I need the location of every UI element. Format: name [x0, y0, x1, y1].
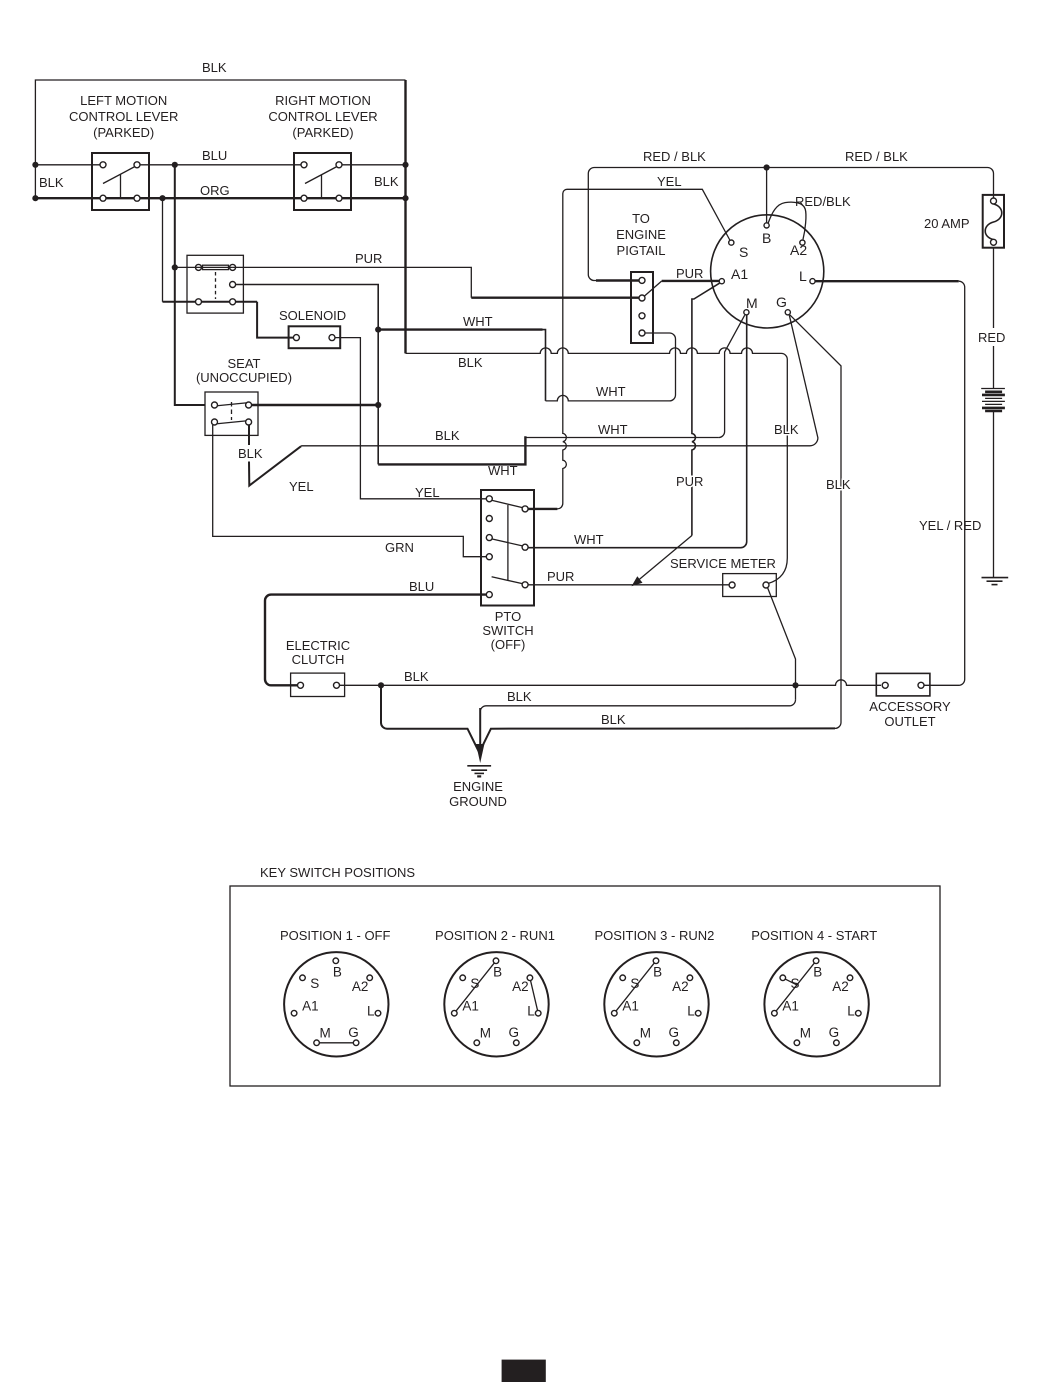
key switch terminals	[719, 223, 815, 315]
svg-text:L: L	[527, 1004, 535, 1019]
svg-text:PTO: PTO	[495, 609, 522, 624]
svg-text:(OFF): (OFF)	[491, 637, 526, 652]
svg-text:WHT: WHT	[574, 532, 604, 547]
wire RED fuse to battery	[993, 248, 995, 388]
wire BLK top loop (top horizontal + left vertical)	[35, 80, 405, 198]
wire relay mid-right to vertical x=378	[236, 285, 379, 465]
svg-text:RIGHT MOTION: RIGHT MOTION	[275, 93, 371, 108]
svg-text:G: G	[348, 1025, 359, 1040]
accessory outlet J2 box	[876, 673, 930, 696]
svg-text:G: G	[669, 1025, 680, 1040]
wire BLK row B y=445.8 seat to G corner	[301, 315, 818, 446]
svg-text:PUR: PUR	[676, 474, 703, 489]
node junction dot WHT tap	[375, 327, 381, 333]
key position 4 circle (A1-B with S tap)	[764, 952, 868, 1056]
svg-text:CONTROL LEVER: CONTROL LEVER	[268, 109, 377, 124]
svg-text:BLK: BLK	[826, 477, 851, 492]
svg-text:RED / BLK: RED / BLK	[643, 149, 706, 164]
wire relay top-left to BLU vertical	[175, 266, 233, 268]
arrowhead to engine ground	[476, 744, 484, 763]
wire WHT y=401 row to pigtail T4 (with hop)	[546, 333, 676, 401]
svg-text:POSITION 2 - RUN1: POSITION 2 - RUN1	[435, 928, 555, 943]
key position 2 circle (A1-B, A2-L)	[444, 952, 548, 1056]
ground symbol engine ground	[467, 766, 491, 777]
svg-text:B: B	[493, 965, 502, 980]
svg-text:SWITCH: SWITCH	[482, 623, 533, 638]
meter M1 service meter box	[723, 574, 777, 597]
svg-text:M: M	[746, 295, 758, 311]
wire BLK y=353 row (with hops)	[406, 348, 788, 558]
wire WHT step down to y=401 row	[543, 330, 546, 401]
wire GRN seat bottom-left to PTO T4	[213, 425, 487, 557]
wire B terminal vertical	[766, 168, 768, 223]
svg-text:A1: A1	[731, 266, 748, 282]
fuse F1 20 AMP	[983, 195, 1004, 248]
node junction dots levers	[32, 162, 408, 202]
svg-text:PUR: PUR	[355, 251, 382, 266]
wire YEL from S terminal to PTO R1	[555, 189, 730, 509]
svg-text:GROUND: GROUND	[449, 794, 507, 809]
svg-text:KEY SWITCH POSITIONS: KEY SWITCH POSITIONS	[260, 865, 415, 880]
svg-text:CLUTCH: CLUTCH	[292, 652, 345, 667]
relay K1 box	[187, 255, 243, 313]
svg-text:(PARKED): (PARKED)	[93, 125, 154, 140]
svg-text:BLU: BLU	[409, 579, 434, 594]
svg-text:B: B	[762, 230, 771, 246]
svg-text:A1: A1	[462, 998, 479, 1013]
svg-text:LEFT MOTION: LEFT MOTION	[80, 93, 167, 108]
wire ORG row y=198 (thick)	[35, 197, 405, 199]
svg-text:S: S	[470, 976, 479, 991]
svg-text:M: M	[800, 1026, 811, 1041]
switch S2 right motion control lever	[294, 153, 351, 210]
svg-text:A2: A2	[832, 979, 849, 994]
key switch SW1 circle	[711, 215, 824, 328]
svg-text:SOLENOID: SOLENOID	[279, 308, 346, 323]
svg-text:ENGINE: ENGINE	[453, 779, 503, 794]
svg-text:POSITION 1 - OFF: POSITION 1 - OFF	[280, 928, 391, 943]
wire L to YEL/RED accessory outlet	[816, 280, 959, 282]
svg-text:BLK: BLK	[202, 60, 227, 75]
svg-text:M: M	[640, 1026, 651, 1041]
svg-text:SEAT: SEAT	[228, 356, 261, 371]
svg-text:BLK: BLK	[601, 712, 626, 727]
switch S3 seat box	[205, 392, 258, 435]
connector J1 to engine pigtail box	[631, 272, 653, 343]
svg-text:OUTLET: OUTLET	[884, 714, 935, 729]
wire battery to chassis ground	[993, 411, 995, 578]
wire BLK seat bottom-right checkmark to line B	[248, 425, 250, 445]
label ACCESSORY OUTLET	[869, 699, 951, 729]
node junction dot clutch tap	[378, 682, 384, 688]
svg-text:L: L	[687, 1004, 695, 1019]
label LEFT MOTION CONTROL LEVER (PARKED)	[69, 93, 178, 140]
label TO ENGINE PIGTAIL	[616, 211, 666, 258]
svg-text:ELECTRIC: ELECTRIC	[286, 638, 350, 653]
svg-text:(UNOCCUPIED): (UNOCCUPIED)	[196, 370, 292, 385]
wire PUR A1 diagonal and vertical to arrow	[692, 283, 720, 535]
svg-text:WHT: WHT	[463, 314, 493, 329]
svg-text:S: S	[791, 976, 800, 991]
svg-text:BLU: BLU	[202, 148, 227, 163]
solenoid L1 box	[289, 326, 341, 348]
node junction dot seat line	[375, 402, 381, 408]
wire BLU vertical x=175 to seat	[175, 165, 205, 405]
wire BLK service-meter ground branch	[480, 700, 795, 744]
svg-text:A1: A1	[622, 998, 639, 1013]
svg-text:RED: RED	[978, 330, 1005, 345]
node junction dot relay top-left feed	[172, 264, 178, 270]
svg-text:WHT: WHT	[596, 384, 626, 399]
svg-text:20 AMP: 20 AMP	[924, 216, 970, 231]
svg-text:ORG: ORG	[200, 183, 230, 198]
wire thick PTO R1 stub	[527, 508, 557, 510]
svg-text:A1: A1	[782, 998, 799, 1013]
svg-text:PIGTAIL: PIGTAIL	[617, 243, 666, 258]
svg-text:B: B	[653, 965, 662, 980]
svg-text:YEL: YEL	[415, 485, 440, 500]
svg-text:BLK: BLK	[458, 355, 483, 370]
label SEAT (UNOCCUPIED)	[196, 356, 292, 385]
svg-text:YEL: YEL	[657, 174, 682, 189]
svg-text:SERVICE METER: SERVICE METER	[670, 556, 776, 571]
key position 3 circle (A1-B)	[604, 952, 708, 1056]
svg-text:YEL: YEL	[289, 479, 314, 494]
svg-text:BLK: BLK	[435, 428, 460, 443]
node junction dot B feed	[764, 164, 770, 170]
svg-text:A1: A1	[302, 998, 319, 1013]
svg-text:BLK: BLK	[39, 175, 64, 190]
battery BT1	[981, 389, 1005, 412]
wire BLU row y=165 segments	[35, 164, 405, 166]
wire WHT row A y=437.5 from M-wire to thick step	[525, 437, 718, 439]
wire thick step x=525 down and left to x=378 vertical	[378, 436, 525, 464]
svg-text:BLK: BLK	[507, 689, 532, 704]
svg-text:WHT: WHT	[598, 422, 628, 437]
wire relay bottom-right to solenoid	[257, 302, 293, 338]
wire WHT M straight vertical to PTO R2	[527, 315, 747, 547]
svg-text:S: S	[739, 244, 748, 260]
svg-text:L: L	[367, 1004, 375, 1019]
node junction dot service meter tap	[792, 682, 798, 688]
svg-text:CONTROL LEVER: CONTROL LEVER	[69, 109, 178, 124]
svg-text:A2: A2	[352, 979, 369, 994]
svg-text:POSITION 4 - START: POSITION 4 - START	[751, 928, 877, 943]
clutch Y1 box	[291, 673, 345, 696]
wire WHT thick from x=378 tap to step	[378, 328, 542, 330]
wire ORG vertical x=162.5 to relay	[162, 198, 164, 302]
arrowhead PUR onto meter line	[632, 576, 643, 586]
wire BLK ground stem thick	[479, 708, 481, 748]
svg-text:GRN: GRN	[385, 540, 414, 555]
wire blade pigtail T2 to A1 line	[645, 281, 662, 296]
label PTO SWITCH (OFF)	[482, 609, 533, 652]
wire RED/BLK pigtail T1 loop to fuse	[588, 168, 993, 281]
page number block (bottom)	[502, 1360, 546, 1382]
svg-text:G: G	[829, 1025, 840, 1040]
wire BLK G to accessory line via x=841	[790, 315, 841, 729]
svg-text:B: B	[813, 965, 822, 980]
svg-text:M: M	[320, 1026, 331, 1041]
svg-text:L: L	[799, 268, 807, 284]
svg-text:A2: A2	[512, 979, 529, 994]
wire YEL solenoid to PTO T1	[335, 338, 486, 499]
svg-text:G: G	[776, 294, 787, 310]
wire RED/BLK jumper B to A2	[768, 202, 806, 239]
svg-text:A2: A2	[790, 242, 807, 258]
label ENGINE GROUND	[449, 779, 507, 809]
svg-text:L: L	[847, 1004, 855, 1019]
svg-text:S: S	[630, 976, 639, 991]
label RIGHT MOTION CONTROL LEVER (PARKED)	[268, 93, 377, 140]
label ELECTRIC CLUTCH	[286, 638, 350, 667]
svg-text:G: G	[509, 1025, 520, 1040]
key switch pin labels	[731, 230, 807, 311]
svg-text:TO: TO	[632, 211, 650, 226]
switch S4 PTO switch box	[481, 490, 534, 606]
svg-text:B: B	[333, 965, 342, 980]
wire BLK right edge vertical x=405.5	[404, 80, 406, 353]
svg-text:RED/BLK: RED/BLK	[795, 194, 851, 209]
wire seat top-right to x=378 vertical (thick)	[252, 404, 379, 406]
ground symbol battery ground	[982, 578, 1009, 585]
wire PUR PTO R3 to service meter	[528, 584, 729, 586]
svg-text:BLK: BLK	[374, 174, 399, 189]
wire BLK curve into service meter right terminal	[768, 558, 787, 584]
key position 1 circle (M-G)	[284, 952, 388, 1056]
wire BLK right ground segment from G vertical	[480, 728, 836, 752]
svg-text:PUR: PUR	[547, 569, 574, 584]
svg-text:YEL / RED: YEL / RED	[919, 518, 981, 533]
svg-text:A2: A2	[672, 979, 689, 994]
svg-text:BLK: BLK	[774, 422, 799, 437]
svg-text:(PARKED): (PARKED)	[292, 125, 353, 140]
wire service meter right to accessory line	[768, 588, 796, 700]
switch S1 left motion control lever	[92, 153, 149, 210]
wire PUR relay to pigtail connector	[233, 267, 472, 297]
wire BLU PTO T5 to electric clutch	[265, 595, 486, 686]
svg-text:S: S	[310, 976, 319, 991]
wire BLK clutch to accessory outlet (with hop at x=841)	[340, 680, 882, 686]
svg-text:RED / BLK: RED / BLK	[845, 149, 908, 164]
wire PUR thick to A1 terminal	[662, 280, 719, 282]
svg-text:ENGINE: ENGINE	[616, 227, 666, 242]
wire WHT M diagonal + row A riser	[719, 315, 745, 437]
svg-text:POSITION 3 - RUN2: POSITION 3 - RUN2	[594, 928, 714, 943]
svg-text:BLK: BLK	[238, 446, 263, 461]
wire BLK clutch tap down to ground row	[381, 685, 479, 752]
svg-text:PUR: PUR	[676, 266, 703, 281]
svg-text:ACCESSORY: ACCESSORY	[869, 699, 951, 714]
svg-text:M: M	[480, 1026, 491, 1041]
panel border	[230, 886, 940, 1086]
svg-text:BLK: BLK	[404, 669, 429, 684]
